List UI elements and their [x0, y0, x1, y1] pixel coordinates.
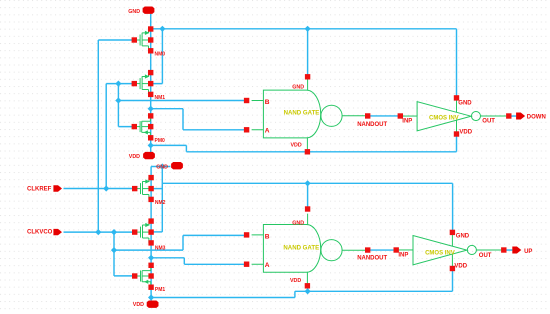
svg-text:CMOS INV: CMOS INV	[425, 250, 455, 256]
junction CLKVCO / PM1 gate branch	[111, 229, 117, 235]
svg-text:B: B	[265, 234, 270, 241]
transistor NM3 (NMOS)	[132, 218, 166, 251]
svg-text:CLKVCO: CLKVCO	[27, 230, 53, 236]
svg-text:VDD: VDD	[291, 143, 302, 149]
wire vertical CLKVCO to PM1 gate	[113, 232, 115, 276]
junction GND (bottom) branch	[159, 163, 165, 169]
svg-text:NM3: NM3	[155, 245, 166, 251]
output port DOWN	[516, 113, 546, 121]
wire wire stack node to NAND U2 input A	[151, 258, 247, 265]
transistor NM0 (NMOS)	[132, 26, 166, 57]
wire bottom transistor-stack vertical (GND pin to VDD pin)	[150, 167, 152, 301]
transistor PM1 (PMOS)	[132, 263, 165, 293]
input port CLKVCO	[27, 229, 62, 236]
wire GND bus drop to NAND U1 GND pin	[307, 29, 309, 77]
wire NM1 gate wire	[106, 83, 134, 85]
svg-text:NANDOUT: NANDOUT	[357, 122, 387, 128]
wire vertical NM1-gate to PM0-gate	[117, 84, 119, 127]
wire GND vertical to bulk ties (bottom)	[161, 167, 163, 232]
svg-text:VDD: VDD	[133, 302, 144, 308]
svg-text:INP: INP	[402, 118, 412, 124]
junction NAND U2 B-wire branch	[111, 247, 117, 253]
wire wire stack node to NAND U1 input A	[151, 109, 247, 130]
wire PM1 gate wire	[114, 275, 134, 277]
junction CLKVCO / NM0 gate branch	[95, 229, 101, 235]
wire vertical CLKREF to NM1 gate	[105, 84, 107, 189]
wire NANDOUT net (top)	[368, 115, 401, 117]
svg-text:A: A	[265, 262, 270, 269]
svg-text:GND: GND	[456, 234, 470, 240]
ground port GND (top)	[128, 7, 154, 16]
output port UP	[512, 247, 532, 255]
svg-text:GND: GND	[458, 100, 472, 106]
op-amp/inverter U4 (CMOS INV, bottom)	[394, 230, 507, 271]
svg-text:VDD: VDD	[129, 154, 140, 160]
svg-text:NM1: NM1	[155, 95, 166, 101]
wire VDD bus (bottom half)	[151, 269, 452, 298]
wire NM2 bulk tie	[151, 188, 162, 190]
svg-text:OUT: OUT	[482, 118, 495, 124]
wire wire to NAND U1 input B	[118, 100, 246, 102]
wire NM0 gate wire	[98, 39, 134, 41]
nand gate U1 (NAND GATE, top)	[244, 74, 370, 154]
svg-text:GND: GND	[156, 165, 168, 171]
wire NM1 bulk tie to GND bus	[151, 29, 163, 84]
svg-text:GND: GND	[292, 84, 304, 90]
junction NAND U1 B-wire branch	[115, 97, 121, 103]
wire VDD stub to NAND U2 VDD pin	[307, 286, 309, 292]
wire vertical CLKVCO to NM0 gate	[97, 40, 99, 232]
svg-text:NANDOUT: NANDOUT	[357, 256, 387, 262]
input port CLKREF	[27, 185, 62, 192]
wire top transistor-stack vertical (GND pin to VDD pin)	[150, 14, 152, 153]
wire GND bus drop to CMOS INV U3 GND pin	[456, 29, 458, 98]
ground port GND (bottom half)	[156, 162, 183, 171]
svg-text:CLKREF: CLKREF	[27, 187, 52, 193]
svg-text:NAND GATE: NAND GATE	[284, 110, 320, 117]
junction NM3 source - PM1 drain node	[148, 255, 154, 261]
svg-text:UP: UP	[524, 249, 532, 255]
wire GND bus drop to CMOS INV U4 GND pin	[452, 183, 454, 232]
svg-text:NM0: NM0	[155, 52, 166, 58]
junction GND bus / NAND U1 GND branch	[305, 26, 311, 32]
wire PM0 gate wire	[118, 126, 134, 128]
junction GND bus / NM1 bulk branch	[159, 26, 165, 32]
junction NM1 gate wire branch	[115, 81, 121, 87]
svg-text:GND: GND	[292, 221, 304, 227]
power port VDD (top half)	[129, 152, 155, 160]
junction VDD bus / NAND U2 VDD branch	[305, 288, 311, 294]
net label NANDOUT (top)	[357, 122, 387, 128]
svg-text:INP: INP	[398, 252, 408, 258]
transistor NM1 (NMOS)	[132, 70, 166, 101]
junction PM0 source - VDD node	[148, 142, 154, 148]
wire CLKVCO wire	[64, 231, 135, 233]
wire GND bus (bottom half)	[162, 182, 452, 184]
svg-text:VDD: VDD	[454, 263, 467, 269]
wire NANDOUT net (bottom)	[368, 249, 397, 251]
transistor NM2 (NMOS)	[132, 175, 166, 206]
svg-text:NAND GATE: NAND GATE	[283, 245, 319, 252]
wire wire to NAND U2 input B	[114, 235, 247, 250]
svg-text:OUT: OUT	[479, 253, 492, 259]
junction CLKREF branch	[103, 185, 109, 191]
wire OUT to DOWN port stub	[509, 115, 517, 117]
svg-text:PM1: PM1	[155, 287, 166, 293]
op-amp/inverter U3 (CMOS INV, top)	[398, 95, 512, 136]
wire GND (bottom) pin wire	[151, 166, 170, 168]
svg-text:PM0: PM0	[155, 138, 166, 144]
svg-text:VDD: VDD	[290, 278, 301, 284]
net label NANDOUT (bottom)	[357, 256, 387, 262]
svg-text:B: B	[265, 99, 270, 106]
transistor PM0 (PMOS)	[132, 113, 165, 144]
svg-text:A: A	[265, 128, 270, 135]
nand gate U2 (NAND GATE, bottom)	[244, 206, 370, 288]
junction NM1 source - PM0 drain node	[148, 106, 154, 112]
wire NM3 bulk tie	[151, 231, 162, 233]
wire CLKREF wire	[64, 188, 135, 190]
wire GND bus drop to NAND U2 GND pin	[307, 183, 309, 209]
svg-text:VDD: VDD	[459, 130, 472, 136]
svg-text:GND: GND	[128, 9, 140, 15]
svg-text:CMOS INV: CMOS INV	[429, 115, 459, 121]
svg-text:NM2: NM2	[155, 200, 166, 206]
wire OUT to UP port stub	[504, 249, 513, 251]
wire GND bus (top half)	[151, 28, 457, 30]
junction GND bus / NAND U2 GND branch	[305, 180, 311, 186]
power port VDD (bottom half)	[133, 301, 159, 309]
svg-text:DOWN: DOWN	[527, 114, 546, 120]
wire VDD bus (top half)	[151, 134, 457, 152]
junction PM1 source - VDD node	[148, 294, 154, 300]
